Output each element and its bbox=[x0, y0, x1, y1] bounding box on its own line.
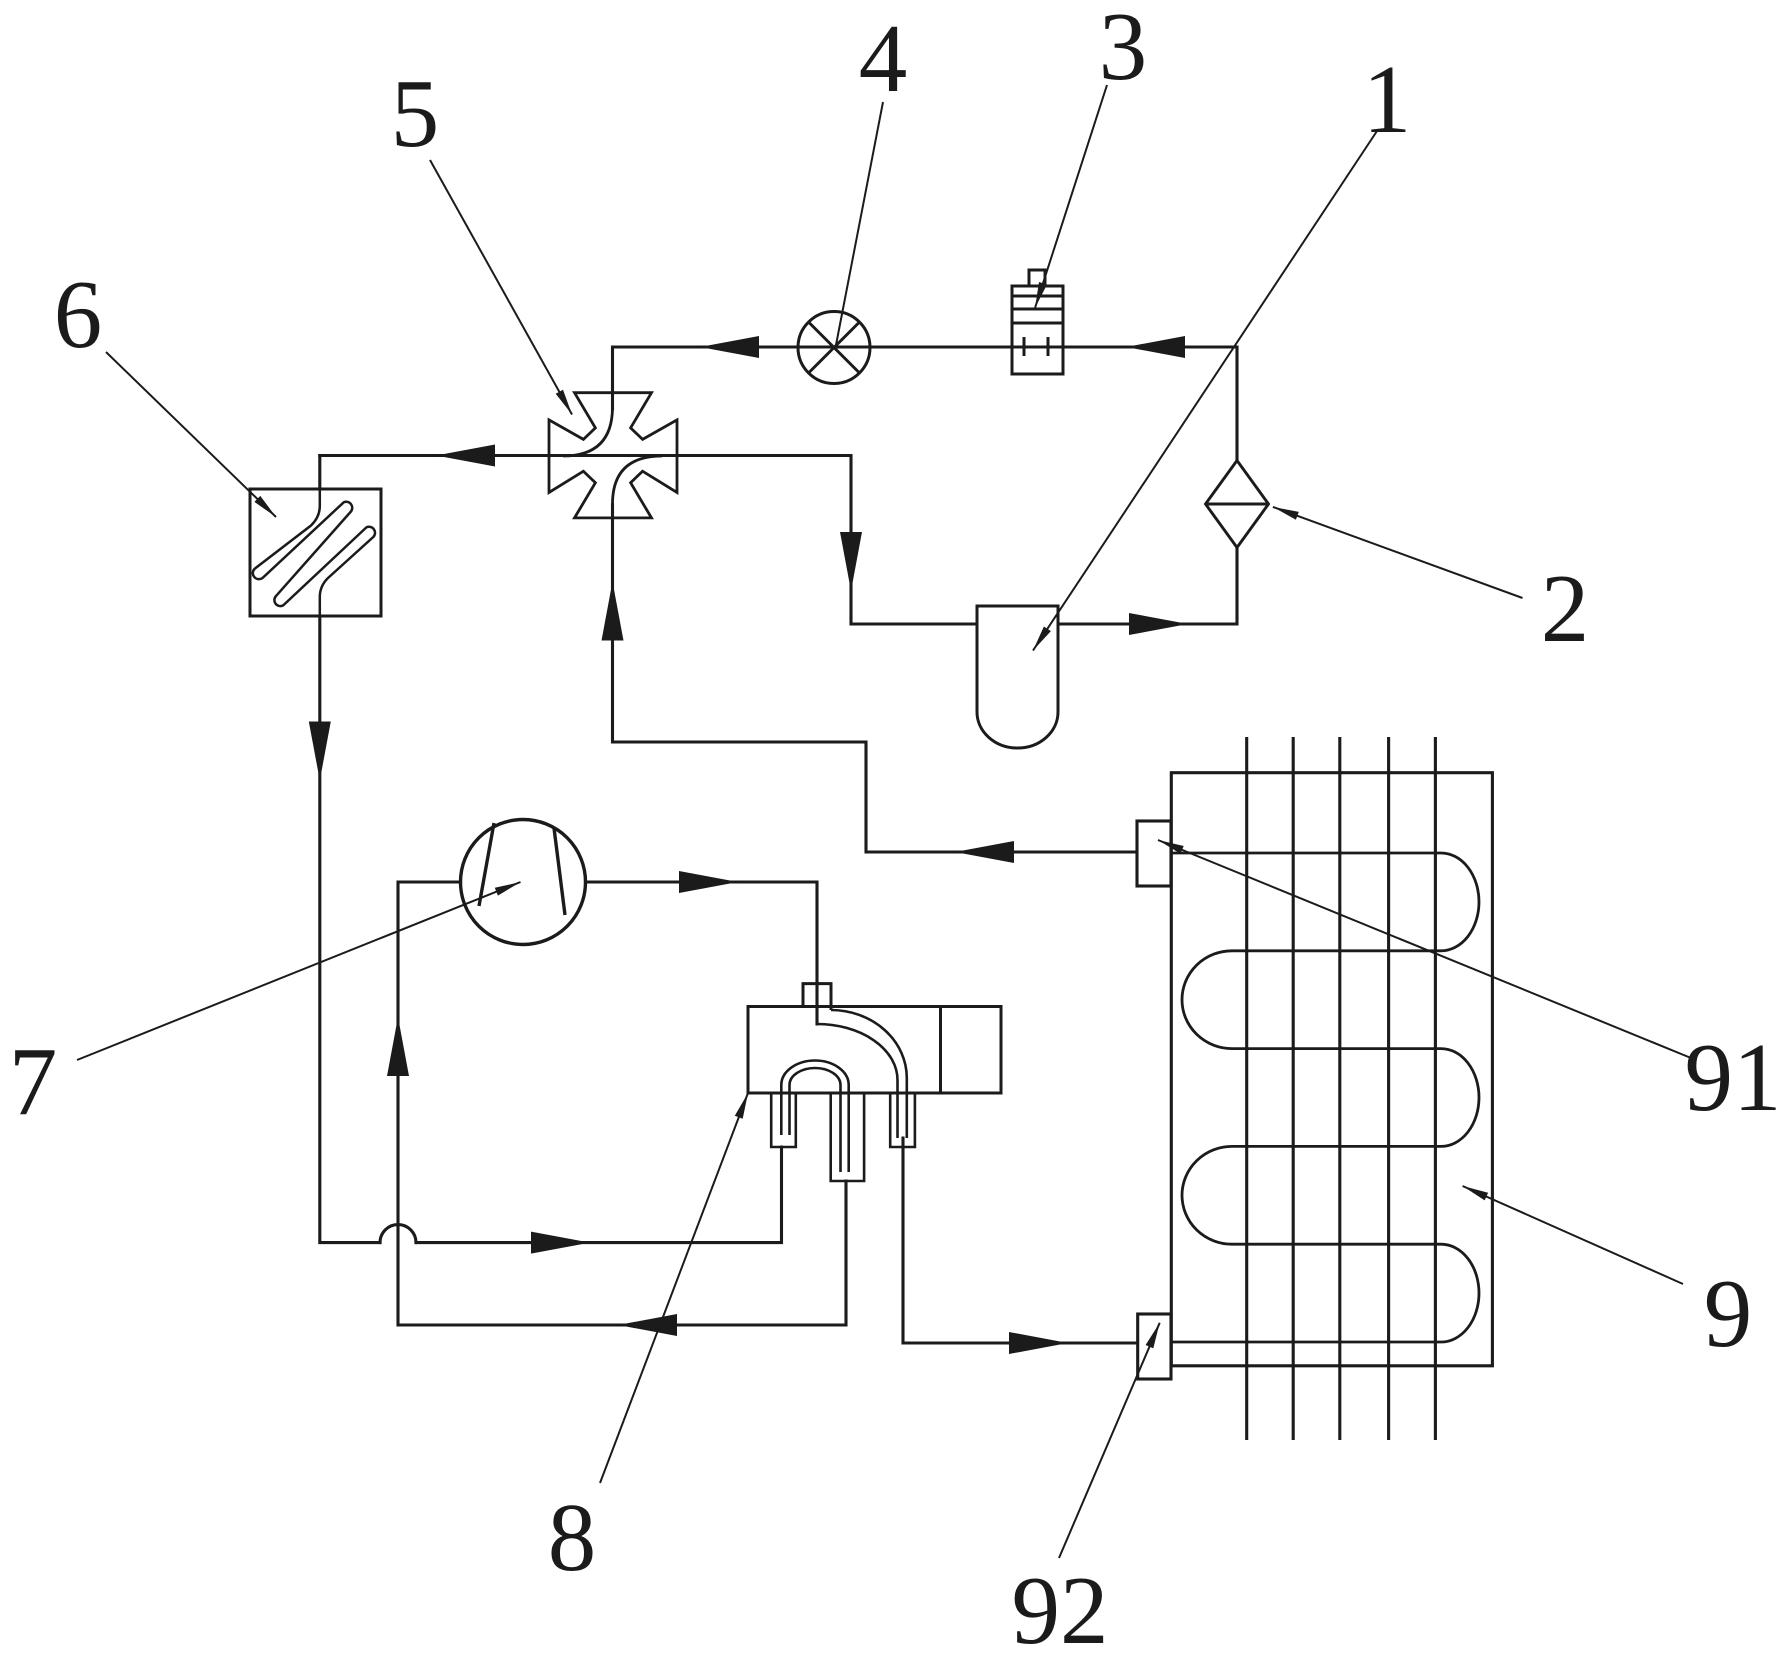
svg-text:9: 9 bbox=[1704, 1260, 1753, 1367]
svg-text:2: 2 bbox=[1541, 555, 1590, 662]
svg-text:91: 91 bbox=[1685, 1024, 1782, 1131]
svg-text:1: 1 bbox=[1363, 46, 1412, 153]
svg-text:92: 92 bbox=[1012, 1557, 1109, 1653]
svg-text:7: 7 bbox=[9, 1028, 58, 1135]
svg-text:8: 8 bbox=[548, 1484, 597, 1591]
svg-text:5: 5 bbox=[391, 60, 440, 167]
svg-text:3: 3 bbox=[1099, 0, 1148, 100]
svg-text:6: 6 bbox=[54, 261, 103, 368]
svg-text:4: 4 bbox=[859, 5, 908, 112]
